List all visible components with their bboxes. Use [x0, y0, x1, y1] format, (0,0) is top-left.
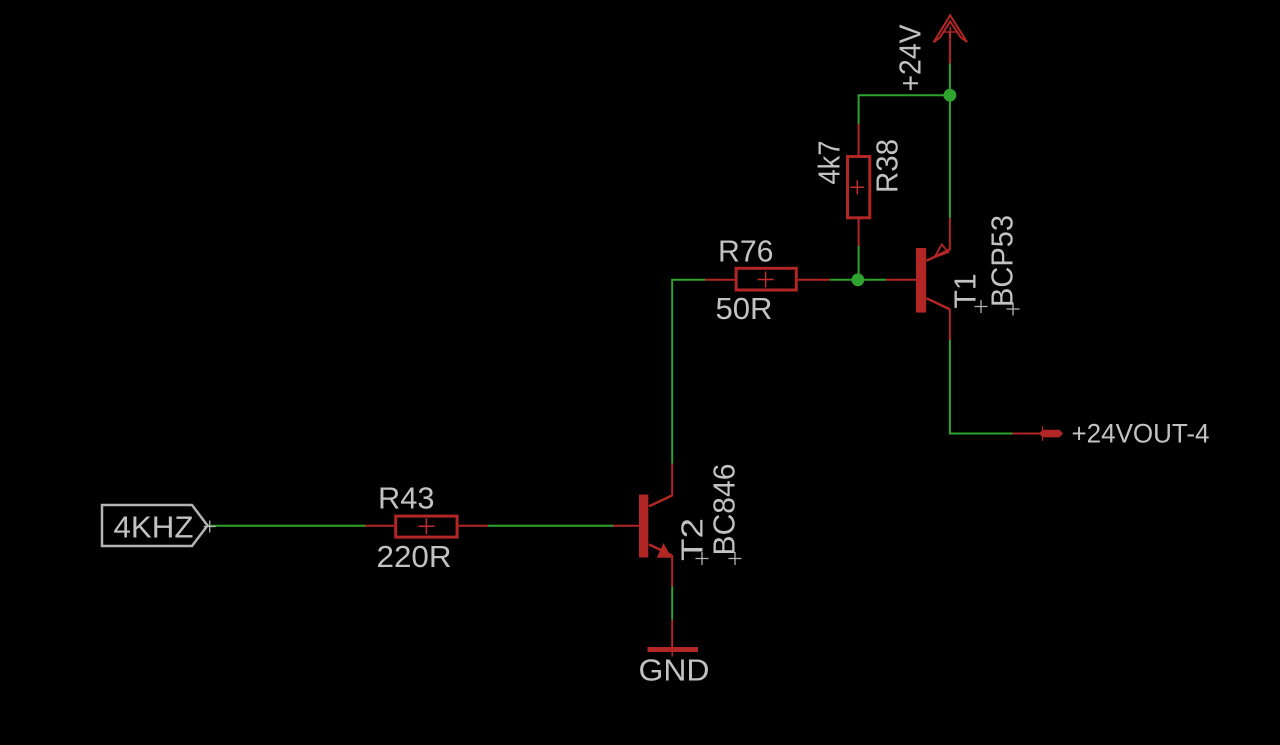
svg-text:T2: T2: [675, 518, 710, 561]
wire T1 collector down: [949, 340, 951, 434]
svg-text:R38: R38: [870, 139, 905, 193]
resistor R38 pins: [858, 124, 860, 155]
svg-text:GND: GND: [639, 653, 710, 688]
svg-text:R76: R76: [718, 234, 774, 269]
transistor T1 emitter arrow (open): [935, 244, 949, 257]
svg-text:4KHZ: 4KHZ: [114, 510, 194, 545]
transistor T2 collector: [649, 496, 672, 506]
svg-text:+24V: +24V: [893, 24, 928, 91]
wire R38 top horizontal to +24V junction: [858, 94, 950, 96]
resistor R38 body: [848, 157, 870, 218]
transistor T2 base pin: [613, 525, 640, 527]
transistor T1 base bar: [916, 248, 926, 313]
resistor R43 body: [396, 516, 457, 537]
svg-text:220R: 220R: [377, 539, 452, 574]
svg-text:4k7: 4k7: [812, 141, 847, 185]
resistor R38 origin cross: [850, 180, 864, 194]
transistor T2 emitter: [649, 544, 672, 555]
ground symbol: [671, 620, 673, 648]
resistor R76 body: [736, 268, 796, 290]
origin cross BC846 value: [729, 552, 742, 565]
svg-text:T1: T1: [948, 274, 983, 309]
wire R38 top vertical: [858, 95, 860, 124]
wire net R43 to T2 base: [488, 525, 614, 527]
origin cross T1 name: [975, 300, 988, 313]
resistor R76 pins: [705, 279, 735, 281]
output arrow +24VOUT-4: [1013, 433, 1041, 435]
wire to output arrow: [949, 433, 1013, 435]
+24V supply symbol: [949, 32, 951, 64]
wire net from 4KHZ flag to R43: [210, 525, 366, 527]
transistor T1 emitter: [949, 218, 951, 250]
flag origin cross: [204, 521, 216, 533]
resistor R76 origin cross: [758, 272, 774, 288]
origin cross BCP53 value: [1007, 303, 1020, 316]
transistor T1 base pin: [886, 279, 917, 281]
wire T2 collector vertical: [671, 280, 673, 464]
svg-text:BC846: BC846: [707, 464, 742, 556]
junction dot at T1 base node: [852, 273, 865, 286]
transistor T1 collector: [927, 298, 950, 309]
wire T2 emitter to GND: [671, 587, 673, 620]
svg-text:R43: R43: [378, 481, 435, 516]
transistor T2 base bar: [639, 495, 648, 558]
transistor T2 emitter arrow: [657, 543, 672, 558]
svg-text:50R: 50R: [716, 291, 773, 326]
input flag 4KHZ: [102, 505, 208, 546]
resistor R43 origin cross: [418, 518, 434, 534]
svg-text:+24VOUT-4: +24VOUT-4: [1072, 419, 1210, 449]
wire R76 to junction to T1 base: [830, 279, 886, 281]
junction dot at +24V node: [944, 89, 957, 102]
origin cross T2 name: [696, 552, 709, 565]
wire junction up to R38 bottom: [858, 246, 860, 281]
resistor R43 pins: [365, 525, 394, 527]
svg-text:BCP53: BCP53: [985, 215, 1020, 307]
wire +24V junction vertical (supply stem down to T1 emitter pin): [949, 63, 951, 218]
wire corner to R76: [671, 279, 705, 281]
